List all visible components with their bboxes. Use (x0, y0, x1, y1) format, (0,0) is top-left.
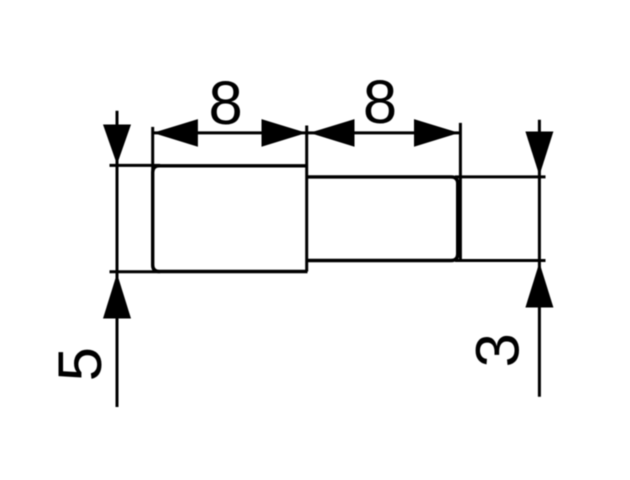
arrowhead right pointing up (525, 263, 553, 308)
arrowhead top-left pointing left (153, 119, 198, 147)
arrowhead left pointing up (103, 274, 131, 319)
left extension line top (110, 164, 161, 167)
svg-text:8: 8 (208, 69, 242, 138)
arrowhead left pointing down (103, 125, 131, 165)
arrowhead middle pointing right (262, 119, 307, 147)
left dimension line (5) (116, 111, 119, 407)
left extension line bottom (110, 270, 161, 273)
svg-text:8: 8 (363, 68, 397, 137)
top dimension line (153, 131, 461, 134)
right extension line bottom (455, 259, 546, 262)
extension line middle (top dim / boundary) (305, 126, 308, 272)
arrowhead right pointing down (525, 132, 553, 176)
right dimension line (3) (538, 120, 541, 397)
extension line right (top dim) (459, 123, 462, 261)
svg-text:3: 3 (464, 333, 533, 367)
arrowhead top-right pointing right (414, 119, 459, 147)
left profile rectangle (8 x 5) (153, 166, 308, 272)
svg-text:5: 5 (46, 347, 115, 381)
right extension line top (455, 175, 546, 178)
extension line left (top dim) (151, 127, 154, 170)
arrowhead middle pointing left (310, 119, 355, 147)
right profile rectangle (8 x 3) (306, 177, 458, 261)
